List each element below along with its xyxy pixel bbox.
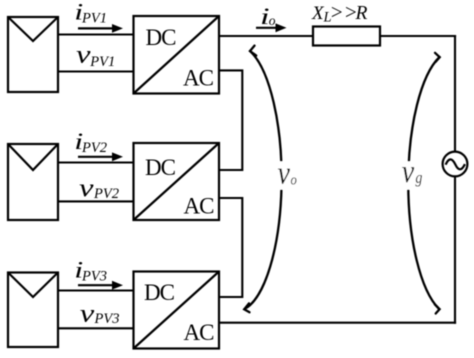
wire PV2 top [58,161,134,163]
svg-text:v: v [79,174,93,202]
label iPV2 [74,129,107,156]
wire PV1 top [58,33,134,35]
svg-text:AC: AC [184,320,215,345]
wire PV1 bottom [58,70,134,72]
label vPV2 [79,174,119,202]
wire PV3 bottom [58,327,134,329]
svg-text:AC: AC [183,66,214,91]
svg-text:AC: AC [184,194,215,219]
arrow vo curve [244,46,281,313]
wire bus U1 to U2 [219,70,242,170]
arrow iPV3 [78,281,123,290]
wire right rail lower [454,176,456,323]
svg-text:v: v [278,154,291,191]
svg-text:DC: DC [145,155,176,180]
svg-text:>>: >> [330,0,358,24]
svg-text:v: v [402,153,415,190]
PV panel PV3 [8,273,58,348]
svg-text:g: g [415,169,422,187]
arrow iPV2 [78,152,123,161]
wire PV3 top [58,289,134,291]
svg-text:DC: DC [146,25,177,50]
label iPV3 [74,258,107,285]
svg-text:PV1: PV1 [89,54,115,70]
wire bus U2 to U3 [219,198,242,297]
svg-text:PV2: PV2 [81,140,107,156]
label vPV3 [80,300,120,328]
svg-text:PV3: PV3 [94,311,120,327]
label vPV1 [76,41,115,70]
svg-text:R: R [355,3,368,24]
label vg [401,153,425,190]
svg-text:DC: DC [144,280,175,305]
label XL>>R [311,0,368,26]
label vo [275,154,299,191]
svg-text:o: o [291,173,297,189]
AC source vg [443,152,468,177]
svg-text:o: o [269,13,276,28]
converter U1 DC/AC [134,16,220,94]
converter U3 DC/AC [134,272,220,349]
wire bottom rail [219,322,456,324]
wire U1 output top to inductor [219,35,313,37]
wire right rail upper [454,35,456,152]
arrow vg curve [408,53,439,314]
label iPV1 [74,0,107,27]
svg-text:v: v [80,300,94,328]
PV panel PV2 [8,144,58,220]
PV panel PV1 [8,17,58,92]
svg-text:PV2: PV2 [93,186,119,202]
svg-text:v: v [76,41,90,69]
inductor XL [313,27,380,46]
wire PV2 bottom [58,200,134,202]
svg-text:PV1: PV1 [81,11,107,27]
arrow iPV1 [78,24,123,33]
converter U2 DC/AC [134,143,220,220]
svg-text:PV3: PV3 [81,269,107,285]
arrow io [256,23,287,32]
wire inductor to right rail [380,35,456,37]
label io [260,4,276,29]
